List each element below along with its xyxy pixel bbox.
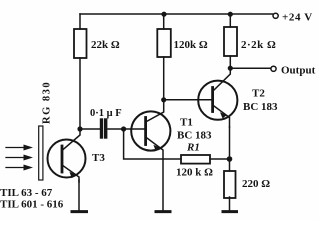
wire 220 top lead [229, 159, 231, 171]
wire 22k top lead [79, 14, 81, 29]
wire 2.2k bottom to output node [229, 56, 231, 68]
node T3 collector junction [77, 126, 82, 131]
wire +24V supply rail [80, 13, 273, 15]
wire 220 bottom lead [229, 197, 231, 211]
wire T2 collector lead [214, 68, 231, 90]
terminal +24 V [273, 12, 313, 24]
wire 2.2k top lead [229, 14, 231, 27]
capacitor 0.1uF [90, 108, 122, 137]
resistor R1 120k feedback [176, 142, 213, 179]
svg-text:120 k Ω: 120 k Ω [176, 167, 213, 179]
wire T3 emitter to ground [78, 180, 80, 211]
svg-text:T3: T3 [92, 152, 105, 164]
ground T3 emitter [72, 210, 87, 213]
light arrow 1 [6, 145, 33, 151]
svg-text:0·1 μ F: 0·1 μ F [90, 108, 122, 119]
svg-text:Output: Output [281, 65, 316, 77]
filter window RG830 [39, 81, 53, 180]
svg-text:+24 V: +24 V [282, 12, 313, 24]
wire T1 emitter to ground [162, 159, 164, 211]
transistor T2 BC183 [198, 81, 278, 127]
wire capacitor right lead to T1 base [108, 128, 145, 130]
resistor 220 [224, 171, 270, 198]
wire capacitor left lead [80, 128, 100, 130]
wire 120k bottom to T1 collector node [163, 57, 165, 100]
ground 220 [223, 210, 237, 213]
svg-text:220 Ω: 220 Ω [242, 178, 270, 190]
light arrow 2 [6, 155, 33, 161]
wire output [230, 67, 270, 69]
svg-text:TIL 601 - 616: TIL 601 - 616 [0, 199, 64, 211]
wire R1 right lead [210, 158, 230, 160]
wire T2 emitter to feedback node [229, 127, 231, 159]
svg-text:22k Ω: 22k Ω [91, 39, 120, 51]
svg-text:R1: R1 [186, 142, 200, 154]
svg-text:RG 830: RG 830 [42, 81, 53, 124]
label TIL types [0, 187, 64, 211]
svg-text:T2: T2 [252, 88, 265, 100]
node rail-120k junction [161, 12, 166, 17]
wire T1 collector node to T2 base [164, 99, 212, 101]
resistor 120k [157, 29, 208, 57]
light arrow 3 [6, 165, 33, 171]
svg-text:BC 183: BC 183 [243, 101, 278, 113]
node output junction [228, 66, 233, 71]
wire T1 base to R1 [124, 129, 181, 159]
terminal Output [271, 65, 316, 77]
svg-text:120k Ω: 120k Ω [174, 39, 208, 51]
transistor T1 BC183 [131, 100, 212, 159]
svg-text:BC 183: BC 183 [177, 130, 212, 142]
node T1 base junction [121, 126, 126, 131]
node feedback junction [227, 156, 233, 162]
resistor 2.2k [224, 27, 276, 56]
resistor 22k [74, 29, 120, 58]
wire 22k bottom to capacitor node [79, 58, 81, 129]
ground T1 emitter [156, 210, 170, 213]
svg-text:TIL 63 - 67: TIL 63 - 67 [0, 187, 53, 199]
node T1 collector junction [161, 97, 166, 102]
node rail-2.2k junction [228, 12, 233, 17]
phototransistor T3 [48, 129, 106, 182]
wire 120k top lead [163, 14, 165, 29]
svg-text:T1: T1 [180, 117, 193, 129]
svg-text:2·2k Ω: 2·2k Ω [241, 39, 276, 51]
